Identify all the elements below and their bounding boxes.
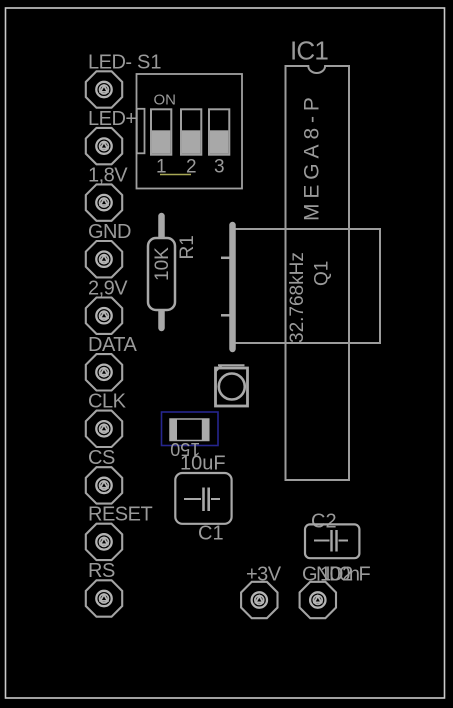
svg-text:RESET: RESET	[88, 504, 152, 526]
svg-text:DATA: DATA	[88, 334, 138, 356]
svg-text:LED-: LED-	[88, 52, 132, 74]
svg-text:10uF: 10uF	[180, 453, 226, 475]
svg-text:CLK: CLK	[88, 391, 127, 413]
svg-text:MEGA8-P: MEGA8-P	[301, 92, 324, 221]
svg-text:C1: C1	[198, 523, 224, 545]
svg-text:32.768kHz: 32.768kHz	[287, 252, 308, 343]
svg-text:S1: S1	[137, 52, 161, 74]
svg-text:10K: 10K	[152, 247, 173, 281]
svg-text:2,9V: 2,9V	[88, 278, 128, 300]
svg-text:CS: CS	[88, 447, 115, 469]
svg-text:3: 3	[214, 157, 225, 178]
svg-text:R1: R1	[177, 235, 198, 259]
svg-text:ON: ON	[154, 92, 177, 109]
svg-text:IC1: IC1	[290, 36, 328, 66]
svg-text:GND: GND	[88, 221, 131, 243]
svg-text:RS: RS	[88, 560, 115, 582]
svg-text:100nF: 100nF	[320, 564, 370, 586]
svg-text:LED+: LED+	[88, 108, 137, 130]
svg-text:Q1: Q1	[312, 261, 333, 286]
svg-text:C2: C2	[311, 511, 337, 533]
svg-text:1,8V: 1,8V	[88, 165, 128, 187]
